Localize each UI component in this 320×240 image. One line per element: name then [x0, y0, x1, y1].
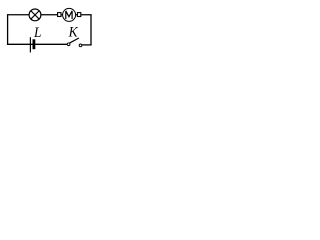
- motor body (circle): [63, 8, 76, 21]
- lamp cross: [31, 11, 39, 19]
- svg-text:K: K: [68, 25, 79, 41]
- battery long thin plate (positive): [29, 37, 31, 52]
- motor right terminal (brush square): [77, 13, 80, 17]
- switch left contact: [67, 43, 70, 46]
- lamp (circle): [29, 9, 41, 21]
- switch blade: [69, 38, 79, 43]
- wire bottom-right: [81, 44, 92, 46]
- wire top (lamp-motor branch): [7, 14, 92, 16]
- svg-text:L: L: [33, 25, 41, 41]
- switch right contact: [79, 44, 82, 47]
- motor letter M: [66, 11, 72, 19]
- wire bottom-left (battery branch): [7, 43, 69, 45]
- wire right: [90, 15, 92, 45]
- motor left terminal (brush square): [58, 13, 61, 17]
- wire left: [7, 15, 9, 45]
- battery short thick plate (negative): [33, 39, 36, 49]
